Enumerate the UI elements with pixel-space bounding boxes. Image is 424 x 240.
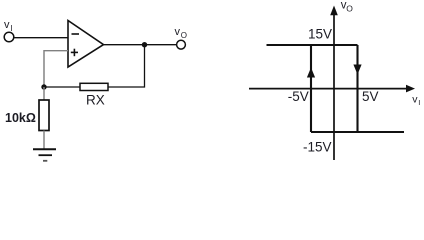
svg-text:O: O [346, 4, 353, 14]
svg-text:-15V: -15V [303, 140, 332, 155]
resistor 10k [39, 100, 49, 131]
hysteresis bottom line -15V [311, 131, 404, 133]
svg-text:O: O [181, 31, 187, 40]
svg-text:15V: 15V [308, 26, 332, 41]
axis v_O [333, 13, 335, 160]
terminal v_I [4, 32, 14, 42]
resistor RX [80, 83, 108, 90]
svg-text:v: v [4, 19, 10, 31]
svg-text:I: I [418, 98, 420, 107]
down transition arrow [353, 65, 361, 75]
wire vI to inverting input [14, 37, 68, 39]
ground [33, 149, 56, 161]
terminal v_O [177, 40, 186, 49]
node A junction dot [41, 84, 46, 89]
svg-text:I: I [11, 24, 13, 33]
svg-text:RX: RX [86, 93, 105, 108]
hysteresis top line +15V [267, 44, 358, 46]
wire 10k to ground [43, 131, 45, 150]
wire op-amp output [104, 44, 177, 46]
label v_O [175, 26, 188, 40]
output junction dot [142, 42, 147, 47]
svg-text:v: v [175, 26, 181, 38]
svg-text:10kΩ: 10kΩ [5, 111, 36, 125]
op-amp U1 [68, 21, 104, 68]
label v_I axis [412, 94, 420, 107]
svg-text:-5V: -5V [288, 89, 309, 104]
up transition arrow [307, 68, 315, 78]
hysteresis left vertical at -5V [310, 45, 312, 132]
label v_O axis [341, 0, 354, 14]
op-amp plus sign [71, 49, 78, 57]
wire node to 10k resistor [43, 87, 45, 100]
label v_I [4, 19, 13, 33]
wire node to RX [44, 86, 80, 88]
axis v_I [249, 88, 410, 90]
svg-text:5V: 5V [362, 89, 379, 104]
wire RX to feedback corner [108, 45, 145, 87]
wire noninverting input [44, 51, 68, 87]
hysteresis right vertical at +5V [356, 45, 358, 132]
op-amp minus sign [72, 33, 80, 35]
